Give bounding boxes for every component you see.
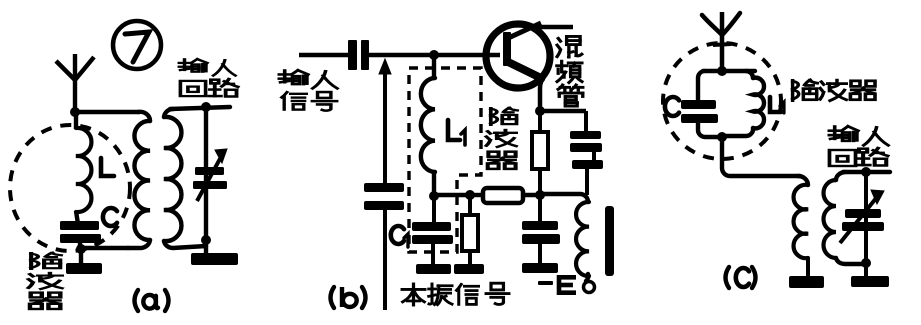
transformer T1 primary (a) [138, 112, 150, 121]
iron core bar (b) [605, 206, 614, 276]
transformer T2 secondary (c) [836, 172, 845, 180]
inductor L tank (c) [753, 78, 764, 129]
wire rail to R2 (b) [470, 193, 484, 197]
label (a) [135, 290, 139, 311]
dashed circle: wave trap (c) [663, 43, 781, 159]
label input circuit (c): 输入回路 [829, 126, 858, 141]
node: L1/C1 junction (b) [429, 191, 439, 201]
wire L1 to rail (b) [432, 170, 436, 197]
label input circuit (a): 输入回路 [179, 59, 207, 72]
wire R1 top (b) [468, 195, 472, 216]
dashed circle: wave trap (a) [10, 125, 130, 251]
capacitor C2 triple-plate (b) [570, 131, 601, 139]
wire input (b) [299, 53, 349, 57]
node: tank bottom junction (c) [717, 132, 727, 142]
ground G5 (b) [522, 263, 558, 273]
antenna A1 [73, 54, 77, 112]
transformer T2 primary (c) [798, 176, 808, 185]
wire Cin to base (b) [368, 53, 500, 57]
figure number 7 badge [113, 21, 161, 69]
dashed box: wave trap (b) [409, 68, 481, 252]
node: trap bottom junction (a) [76, 244, 86, 254]
wire secondary top to input tank (a) [170, 107, 230, 109]
wire down to L (a) [74, 112, 78, 129]
transformer T1 secondary (a) [164, 109, 173, 117]
label wave trap (a): 陷波器 [31, 253, 61, 269]
node: rail/R1 junction (b) [465, 190, 475, 200]
inductor L2 output (b) [576, 202, 589, 276]
wire R3 to rail junction (b) [538, 169, 542, 196]
wire antenna to T1 primary [73, 110, 140, 114]
inductor L1 (b) [421, 78, 435, 172]
variable capacitor CV2 (c) [845, 209, 881, 218]
wire L2 to -E terminal (b) [586, 274, 588, 281]
label (C) [726, 267, 730, 288]
node: antenna junction (a) [70, 107, 80, 117]
coupling capacitor Cin (b) [348, 40, 357, 70]
rail wire L1-junction to R junction (b) [434, 193, 470, 197]
ground G7 (c) [864, 263, 868, 278]
label L1 (b) [448, 120, 460, 140]
tank right branch lower wire (c) [724, 128, 753, 136]
label C (c) [665, 97, 679, 116]
wire tank to transformer (c) [722, 137, 800, 176]
node: emitter rail junction (b) [535, 190, 545, 200]
capacitor C (a) [60, 221, 99, 230]
ground G4 (b) [454, 264, 484, 274]
label mixer transistor (b): 混频管 [557, 36, 582, 57]
ground G2 (a) [204, 240, 208, 256]
label input signal (b): 输入信号 [279, 70, 308, 84]
wire emitter junction to bypass cap (b) [539, 109, 586, 113]
antenna A2 (c) [720, 12, 725, 70]
wire oscillator line down (b) [383, 210, 387, 310]
wire rail to output coil (b) [540, 194, 588, 202]
tank left branch lower wire (c) [698, 123, 722, 137]
node: tank top junction (c) [717, 66, 727, 76]
label C (a) [103, 208, 117, 226]
resistor R2 horizontal (b) [483, 188, 523, 203]
label (b) [331, 287, 335, 308]
ground G6 (c) [789, 276, 824, 288]
capacitor C tank (c) [681, 100, 716, 109]
wire variable capacitor branch (c) [864, 172, 868, 263]
capacitor C1 (b) [432, 196, 436, 224]
node: secondary top junction (c) [861, 167, 871, 177]
node: base junction with L1 (b) [429, 50, 439, 60]
transistor Q1 mixer (b) [486, 24, 550, 88]
inductor L (a) [76, 128, 91, 212]
label -E (b) [538, 281, 553, 285]
node: secondary top (a) [201, 102, 211, 112]
resistor R1 (b) [462, 215, 478, 251]
ground G1 (a) [79, 249, 83, 265]
capacitor C3 emitter bypass (b) [538, 195, 542, 223]
local oscillator injection arrow (b) [379, 59, 391, 74]
wire T1 primary bottom to junction (a) [81, 246, 128, 250]
wire L to C (a) [76, 211, 78, 224]
tank top wire (c) [703, 69, 755, 73]
wire base junction to L1 (b) [432, 53, 436, 78]
series capacitor on oscillator line (b) [364, 183, 404, 192]
node: emitter junction (b) [535, 106, 545, 116]
tank left branch wire (c) [698, 71, 704, 101]
wire down to variable capacitor (a) [204, 107, 208, 240]
wire C1 to ground (b) [431, 244, 435, 266]
wire secondary top (c) [843, 170, 890, 174]
label wave trap (b): 陷波器 [491, 108, 517, 125]
label L (c) [770, 97, 781, 112]
variable capacitor CV1 (a) [195, 167, 224, 175]
ground G3 (b) [416, 264, 451, 274]
wire R2 to emitter junction (b) [522, 193, 542, 197]
wire emitter junction to R3 (b) [538, 111, 542, 133]
label wave trap (c): 陷波器 [793, 80, 818, 101]
node: secondary bottom (a) [201, 235, 211, 245]
label local oscillator signal (b): 本振信号 [402, 284, 425, 305]
terminal circle -E (b) [584, 282, 595, 293]
node: secondary bottom junction (c) [861, 258, 871, 268]
wire C3 to ground (b) [538, 244, 542, 265]
resistor R3 (b) [532, 132, 548, 169]
tank right branch wire (c) [746, 71, 753, 78]
label L (a) [101, 158, 114, 176]
wire C to ground junction (a) [78, 243, 82, 252]
label C1 (b) [391, 226, 404, 244]
wire R1 to ground (b) [468, 251, 472, 266]
